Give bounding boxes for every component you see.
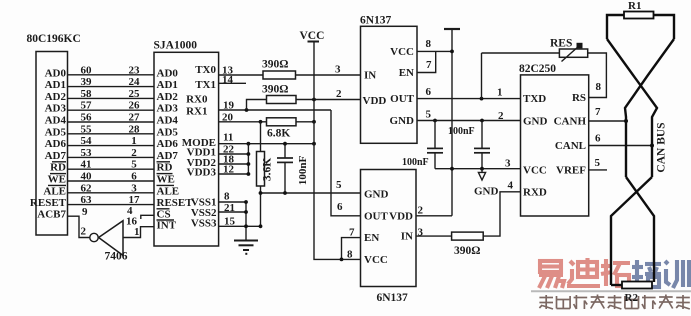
svg-text:AD1: AD1 [45, 79, 66, 91]
bus lead R1 left [607, 15, 624, 39]
watermark row1 char 2 (red) [567, 258, 600, 286]
wire VDD stub bus vertical [247, 144, 249, 174]
wire isolated VCC line to 82C250 VCC pin3 [435, 168, 521, 170]
svg-text:CANH: CANH [554, 116, 587, 128]
svg-text:6N137: 6N137 [360, 15, 392, 27]
svg-text:28: 28 [129, 123, 141, 135]
optocoupler U6 6N137 (bottom) box [361, 170, 417, 287]
isolated VCC post bar [444, 28, 460, 30]
svg-text:6: 6 [595, 133, 601, 145]
wire VDD2 stub pin18 [219, 163, 249, 165]
wire digital ground rail [261, 192, 361, 194]
svg-text:100nF: 100nF [297, 156, 309, 186]
resistor RES body [559, 49, 587, 57]
overline RD (CPU) [52, 161, 66, 163]
svg-text:VCC: VCC [390, 46, 414, 58]
pin numbers CPU side 60 39 58 57 56 55 54 53 41 40 62 63 [81, 64, 93, 206]
svg-text:7: 7 [426, 59, 432, 71]
svg-text:CANL: CANL [555, 140, 586, 152]
overline ALE (SJA) [157, 184, 175, 186]
svg-text:RS: RS [572, 92, 586, 104]
svg-text:CS: CS [157, 209, 171, 221]
ground symbol (digital) [234, 241, 258, 254]
optocoupler U4 6N137 (top) box [361, 26, 418, 143]
svg-text:60: 60 [81, 64, 93, 76]
svg-text:7406: 7406 [105, 251, 128, 263]
junction VDD bus / VCC rail [312, 142, 316, 146]
wire AD2 row 3 [68, 97, 155, 99]
wire RXD pin4 to R7 to opto2 IN pin3 [483, 192, 520, 236]
isolated ground arrow symbol [478, 169, 485, 180]
capacitor C1 bottom lead [284, 162, 286, 193]
CAN controller U2 SJA1000 box [154, 52, 219, 246]
svg-text:82C250: 82C250 [519, 63, 556, 75]
svg-text:23: 23 [129, 64, 141, 76]
junction VCC line / arrow [480, 167, 484, 171]
pin numbers SJA1000 side 23 24 25 26 27 28 1 2 5 6 3 17 [129, 64, 141, 206]
twisted pair upper cross right line [625, 39, 674, 177]
watermark row1 char 1 (red) [539, 261, 564, 288]
wire RX0 pin19 horizontal [219, 109, 331, 111]
svg-text:6: 6 [337, 201, 343, 213]
svg-text:390Ω: 390Ω [454, 245, 480, 257]
svg-text:AD3: AD3 [157, 103, 179, 115]
svg-text:53: 53 [81, 147, 93, 159]
svg-text:3: 3 [505, 158, 511, 170]
svg-text:27: 27 [129, 112, 141, 124]
svg-text:5: 5 [131, 159, 137, 171]
svg-text:2: 2 [131, 147, 137, 159]
capacitor C3 bottom lead [481, 153, 483, 169]
junction RX0/R4 riser [245, 108, 249, 112]
svg-text:VDD: VDD [389, 210, 413, 222]
wire AD5 row 6 [68, 133, 155, 135]
svg-text:EN: EN [399, 67, 414, 79]
resistor R4 390ohm body [267, 96, 297, 104]
svg-text:OUT: OUT [390, 93, 415, 105]
watermark underline [531, 290, 691, 292]
wire AD4 row 5 [68, 121, 155, 123]
wire AD7 row 8 [68, 156, 155, 158]
watermark row1 char 4 (blue) [632, 260, 661, 287]
bus lead R2 left [611, 284, 622, 286]
svg-text:AD6: AD6 [45, 138, 67, 150]
wire AD0 bus row 1 [68, 74, 155, 76]
svg-text:R2: R2 [625, 292, 639, 304]
svg-text:RXD: RXD [523, 186, 547, 198]
junction OUT / RES riser [480, 97, 484, 101]
svg-text:GND: GND [390, 115, 415, 127]
svg-text:GND: GND [364, 189, 389, 201]
capacitor C2 plates [427, 148, 443, 152]
svg-text:3.6K: 3.6K [262, 158, 274, 181]
termination resistor R1 body [624, 12, 654, 19]
svg-text:25: 25 [129, 88, 141, 100]
wire opto2 OUT to SJA1000 RX0 [331, 110, 361, 216]
82C250 left pin labels [523, 93, 548, 198]
svg-text:EN: EN [364, 232, 379, 244]
wire VREF stub pin5 [589, 169, 607, 171]
junction CANH / bus [624, 119, 628, 123]
svg-text:ALE: ALE [157, 185, 180, 197]
svg-text:AD0: AD0 [45, 67, 67, 79]
overline CS [157, 208, 170, 210]
80C196KC pin labels AD0-AD7 RD WE ALE RESET ACB7 [30, 67, 67, 220]
resistor R6 lead bottom to VSS row [260, 186, 262, 226]
junction CANL / bus [650, 144, 654, 148]
resistor R7 390ohm body [452, 232, 484, 240]
svg-text:TXD: TXD [523, 93, 546, 105]
svg-text:ALE: ALE [43, 185, 66, 197]
wire CANH pin7 to bus [589, 120, 626, 122]
wire VDD1 stub pin22 [219, 153, 249, 155]
svg-text:14: 14 [222, 74, 234, 86]
junction VDD2 [247, 162, 251, 166]
termination resistor R2 body [622, 282, 652, 289]
svg-text:VSS3: VSS3 [191, 217, 217, 229]
resistor R5 6.8K body [267, 118, 297, 126]
watermark row1 char 3 (red) [601, 259, 630, 286]
capacitor C2 100nF top lead [434, 121, 436, 149]
wire VSS bus vertical to ground [245, 202, 247, 241]
svg-text:INT: INT [157, 220, 177, 232]
svg-text:RES: RES [550, 38, 572, 50]
junction GND line / C3 [480, 119, 484, 123]
svg-text:15: 15 [224, 215, 236, 227]
junction RX1 / 3.6K [259, 120, 263, 124]
svg-text:2: 2 [336, 88, 342, 100]
svg-text:RX1: RX1 [186, 106, 207, 118]
capacitor C3 plates [474, 148, 490, 152]
svg-text:AD1: AD1 [157, 79, 178, 91]
watermark row2 slogan [539, 295, 689, 310]
wire MODE/VDD bus pin11 row [219, 143, 314, 145]
svg-text:55: 55 [81, 123, 93, 135]
svg-text:VCC: VCC [364, 254, 388, 266]
twisted pair upper cross left line [607, 39, 657, 177]
svg-text:11: 11 [223, 132, 233, 144]
svg-text:57: 57 [81, 100, 93, 112]
svg-text:WE: WE [48, 174, 66, 186]
junction 6.8K / VCC rail [312, 120, 316, 124]
transceiver U5 82C250 box [521, 75, 589, 216]
svg-text:SJA1000: SJA1000 [154, 40, 198, 52]
svg-text:AD2: AD2 [45, 91, 67, 103]
junction gnd rail / 3.6K vertical [259, 191, 263, 195]
svg-text:6: 6 [426, 86, 432, 98]
svg-text:39: 39 [81, 76, 93, 88]
twisted pair lower cross line B [611, 177, 652, 285]
svg-text:AD0: AD0 [157, 67, 179, 79]
overline RD (SJA) [157, 161, 171, 163]
svg-text:AD3: AD3 [45, 103, 67, 115]
svg-text:IN: IN [401, 231, 413, 243]
svg-text:100nF: 100nF [402, 157, 429, 168]
svg-text:4: 4 [127, 205, 133, 217]
svg-text:RESET: RESET [157, 197, 194, 209]
svg-text:6N137: 6N137 [377, 292, 409, 304]
svg-text:AD7: AD7 [45, 150, 67, 162]
svg-text:AD4: AD4 [157, 115, 179, 127]
svg-text:R1: R1 [628, 0, 641, 12]
svg-text:GND: GND [474, 186, 499, 198]
svg-text:16: 16 [126, 216, 138, 228]
SJA1000 left pin labels [157, 67, 194, 231]
wire WE row 10 [68, 180, 155, 182]
svg-text:9: 9 [82, 206, 88, 218]
svg-text:4: 4 [508, 180, 514, 192]
svg-text:2: 2 [498, 110, 504, 122]
svg-text:26: 26 [129, 100, 141, 112]
svg-text:3: 3 [335, 64, 341, 76]
svg-text:1: 1 [134, 226, 140, 238]
wire VSS2 stub pin21 [219, 211, 246, 213]
junction GND line / C2 [433, 119, 437, 123]
svg-text:80C196KC: 80C196KC [27, 33, 81, 45]
svg-text:54: 54 [81, 135, 93, 147]
bus lead R1 right [654, 15, 675, 39]
wire opto1 EN pin7 tied to VCC [417, 51, 436, 72]
wire CS stub [141, 215, 154, 219]
wire riser R4 left end [247, 100, 267, 111]
junction VCC line / rail [450, 167, 454, 171]
svg-text:AD5: AD5 [45, 126, 67, 138]
svg-text:AD4: AD4 [45, 115, 67, 127]
junction VCC rail / anode wire [312, 98, 316, 102]
wire VSS3 stub pin15 [219, 225, 261, 227]
wire CANL pin6 to bus [589, 145, 652, 147]
wire to RES [482, 52, 560, 54]
pullup resistor RES riser from OUT [481, 53, 483, 99]
svg-text:1: 1 [131, 135, 137, 147]
watermark row1 char 5 (blue) [665, 260, 689, 288]
RES adjustable arrow [562, 46, 580, 62]
wire RX1 pin20 to R5 [219, 121, 267, 123]
svg-text:58: 58 [81, 88, 93, 100]
svg-text:8: 8 [224, 191, 230, 203]
junction VSS1 [244, 200, 248, 204]
wire RES to RS pin8 [588, 53, 607, 98]
junction VSS3 [244, 224, 248, 228]
svg-text:RX0: RX0 [186, 94, 208, 106]
svg-text:24: 24 [129, 76, 141, 88]
svg-text:390Ω: 390Ω [262, 84, 288, 96]
svg-text:AD5: AD5 [157, 126, 179, 138]
wire VDD3 stub pin12 [219, 173, 249, 175]
wire RESET row 12 [68, 204, 155, 206]
wire VSS1 stub pin8 [219, 201, 246, 203]
svg-text:VCC: VCC [523, 165, 547, 177]
resistor R3 390ohm body [263, 71, 296, 79]
svg-text:ACB7: ACB7 [37, 209, 66, 221]
svg-text:VCC: VCC [300, 30, 325, 42]
svg-text:2: 2 [418, 205, 424, 217]
wire ALE row 11 [68, 192, 155, 194]
svg-text:62: 62 [81, 182, 93, 194]
svg-text:8: 8 [596, 81, 602, 93]
wire VCC rail vertical [314, 42, 361, 260]
overline WE (SJA) [157, 173, 173, 175]
svg-text:VDD3: VDD3 [187, 167, 217, 179]
svg-text:WE: WE [157, 174, 175, 186]
svg-text:VDD: VDD [363, 95, 387, 107]
svg-text:TX1: TX1 [195, 79, 216, 91]
wire RD row 9 [68, 168, 155, 170]
svg-text:6: 6 [131, 171, 137, 183]
capacitor C2 bottom lead [434, 153, 436, 169]
wire AD1 row 2 [68, 86, 155, 88]
svg-text:AD6: AD6 [157, 138, 179, 150]
overline INT [157, 219, 175, 221]
overline WE (CPU) [50, 173, 66, 175]
svg-text:3: 3 [131, 182, 137, 194]
wire opto2 EN pin7 tied to VCC row [342, 238, 361, 260]
svg-text:CAN BUS: CAN BUS [656, 122, 668, 172]
svg-text:RESET: RESET [30, 197, 67, 209]
svg-text:GND: GND [523, 116, 548, 128]
capacitor C1 plates [277, 158, 293, 162]
resistor R6 3.6K body [257, 152, 265, 187]
junction C1 / VDD bus [283, 142, 287, 146]
svg-text:AD7: AD7 [157, 150, 179, 162]
wire ACB7 pin 9 [68, 216, 90, 237]
capacitor C1 100nF top lead [284, 144, 286, 158]
svg-text:7: 7 [349, 227, 355, 239]
wire R7 to opto2 IN [416, 235, 452, 237]
wire TX0 to opto1 IN (pin13 to pin3) [219, 74, 263, 76]
82C250 right pin labels [554, 92, 587, 176]
MCU U_CPU 80C196KC box [36, 52, 68, 236]
junction pin8 / VCC rail [450, 50, 454, 54]
wire opto1 GND pin5 to 82C250 GND pin2 [417, 120, 521, 122]
svg-text:AD2: AD2 [157, 91, 179, 103]
junction 3.6K bottom / VSS3 row [259, 224, 263, 228]
wire AD6 row 7 [68, 145, 155, 147]
svg-text:6.8K: 6.8K [267, 128, 290, 140]
svg-text:OUT: OUT [364, 210, 389, 222]
svg-text:40: 40 [81, 171, 93, 183]
svg-text:2: 2 [81, 226, 87, 238]
inverter U3 7406 triangle [99, 221, 123, 256]
svg-text:56: 56 [81, 112, 93, 124]
svg-text:RD: RD [157, 162, 173, 174]
junction VDD3 [247, 172, 251, 176]
wire TX1 stub pin14 [219, 82, 246, 84]
wire isolated VCC rail vertical [451, 29, 453, 216]
resistor R6 3.6K vertical lead top [260, 122, 262, 152]
svg-text:8: 8 [347, 249, 353, 261]
opto1 pin labels [363, 70, 387, 108]
svg-text:100nF: 100nF [448, 126, 475, 137]
wire AD3 row 4 [68, 109, 155, 111]
wire anode riser opto2 VDD pin2 to VCC line [416, 215, 452, 217]
wire R5 to VCC rail [296, 121, 314, 123]
svg-text:3: 3 [418, 227, 424, 239]
wire R4 to VCC rail and opto1 VDD pin2 [296, 99, 361, 101]
svg-text:1: 1 [497, 87, 503, 99]
svg-text:41: 41 [81, 159, 92, 171]
junction VSS2 [244, 210, 248, 214]
wire R3 to opto1 IN [296, 74, 361, 76]
wire opto1 OUT pin6 to 82C250 TXD [417, 98, 521, 100]
svg-text:7: 7 [595, 106, 601, 118]
wire opto1 VCC pin8 to isolated VCC post [417, 50, 452, 52]
svg-text:5: 5 [595, 157, 601, 169]
svg-text:TX0: TX0 [195, 64, 216, 76]
wire 7406 input to SJA1000 INT [123, 227, 154, 238]
svg-text:RD: RD [50, 162, 66, 174]
junction VDD1 [247, 152, 251, 156]
SJA1000 right pin labels TX0 TX1 RX0 RX1 MODE VDD1-3 VSS1-3 [182, 64, 217, 229]
twisted pair lower cross line A [626, 177, 654, 282]
opto2 pin labels [364, 189, 389, 266]
svg-text:5: 5 [426, 109, 432, 121]
svg-text:VREF: VREF [556, 165, 586, 177]
svg-text:8: 8 [426, 38, 432, 50]
junction VDD bus / stub bus [247, 142, 251, 146]
VCC post bar [308, 41, 320, 43]
svg-text:390Ω: 390Ω [262, 59, 288, 71]
svg-text:IN: IN [364, 70, 376, 82]
junction gnd rail / C1 [283, 191, 287, 195]
svg-text:63: 63 [81, 194, 93, 206]
overline ALE (CPU) [48, 184, 66, 186]
junction EN / VCC row [340, 258, 344, 262]
inverter U3 7406 bubble [90, 233, 98, 241]
capacitor C3 100nF top lead [481, 121, 483, 149]
svg-text:5: 5 [336, 179, 342, 191]
